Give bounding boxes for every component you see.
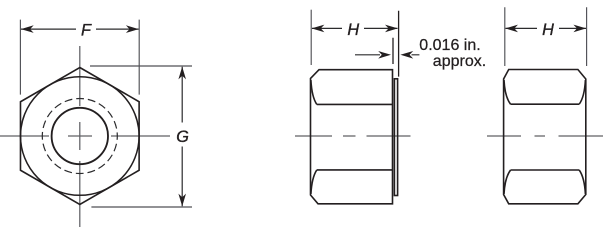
svg-text:approx.: approx. bbox=[433, 53, 486, 70]
svg-text:F: F bbox=[81, 21, 92, 39]
svg-text:H: H bbox=[542, 21, 554, 39]
svg-text:H: H bbox=[347, 21, 359, 39]
svg-text:G: G bbox=[176, 128, 189, 146]
svg-text:0.016 in.: 0.016 in. bbox=[419, 37, 480, 54]
